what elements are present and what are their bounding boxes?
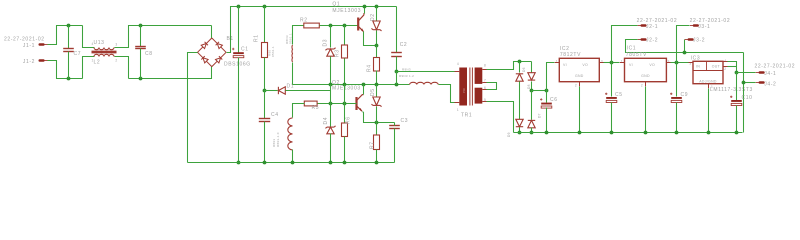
wire IC1 VO to IC3 IN: [671, 62, 689, 64]
wire D6 top stub: [519, 62, 521, 73]
svg-text:C9: C9: [681, 92, 689, 98]
pin OUT IC3: [712, 65, 721, 69]
junction C2 node: [395, 70, 399, 74]
junction C1 top: [237, 5, 241, 9]
label Q1: [332, 2, 340, 8]
junction lower winding ground: [291, 161, 295, 165]
junction J3-2 line: [683, 51, 687, 55]
voltage regulator IC2 7812TV: [559, 58, 599, 81]
connector pin J2-2: [638, 38, 647, 41]
value L6 col2: [276, 132, 280, 147]
svg-text:PRI: PRI: [462, 88, 466, 93]
capacitor C3: [389, 126, 400, 129]
wire midpoint rail: [293, 84, 410, 86]
junction D6 cathode: [518, 60, 522, 64]
svg-text:MJE13003: MJE13003: [332, 85, 361, 91]
svg-text:D9: D9: [507, 132, 511, 137]
wire secondary ground rail: [514, 132, 743, 134]
svg-text:C8: C8: [145, 51, 153, 57]
junction D2 rail: [375, 5, 379, 9]
label U13: [94, 40, 105, 46]
svg-text:1: 1: [711, 85, 713, 89]
pin IN IC3: [696, 65, 700, 69]
resistor R7: [374, 135, 380, 150]
pin GND IC2: [575, 74, 584, 78]
wire D2 top stub: [376, 7, 378, 21]
svg-text:R1: R1: [254, 34, 260, 42]
wire bridge left to ground: [188, 53, 198, 163]
svg-text:MJE13003: MJE13003: [332, 8, 361, 14]
svg-text:GND: GND: [575, 74, 584, 78]
junction C5 ground: [610, 131, 614, 135]
diode D9: [516, 119, 523, 126]
pin 2 IC1: [641, 84, 643, 88]
svg-text:0561.1: 0561.1: [271, 46, 275, 57]
capacitor C7: [63, 49, 74, 52]
pin 3 IC3: [689, 62, 691, 66]
connector pin J4-2: [756, 81, 765, 84]
label IC1 value 7805TV: [626, 52, 647, 58]
wire C9 from VO node: [676, 63, 678, 97]
connector pin J2-1: [638, 24, 647, 27]
zener diode D3: [326, 48, 336, 57]
pin 4 TR1: [457, 62, 459, 66]
pin VI IC2: [563, 63, 567, 67]
svg-text:TR1: TR1: [461, 113, 472, 119]
capacitor C1: [232, 48, 244, 58]
bridge rectifier B1: [196, 36, 228, 68]
svg-text:R6: R6: [346, 116, 352, 124]
value R1 col2: [271, 46, 275, 57]
label TR1: [461, 113, 472, 119]
wire winding to midrail: [292, 63, 294, 85]
svg-text:2: 2: [115, 59, 117, 63]
inductor U13 winding bottom: [94, 54, 114, 56]
inductor L6 feedback winding lower: [288, 118, 293, 150]
label D2: [370, 13, 376, 21]
svg-text:4: 4: [457, 62, 459, 66]
label B1: [227, 36, 234, 42]
svg-text:R7: R7: [369, 141, 375, 149]
label IC2 value 7812TV: [560, 52, 581, 58]
resistor R3: [342, 45, 348, 58]
wire D7 to ground rail: [531, 128, 533, 133]
svg-text:7805TV: 7805TV: [626, 52, 647, 58]
svg-text:22-27-2021-02: 22-27-2021-02: [637, 18, 678, 24]
svg-text:J1-2: J1-2: [23, 59, 35, 65]
svg-text:22-27-2021-02: 22-27-2021-02: [690, 18, 731, 24]
wire J4-1 line: [737, 72, 756, 74]
svg-text:C10: C10: [742, 95, 753, 101]
label C9: [681, 92, 689, 98]
junction midrail R4: [375, 83, 379, 87]
resistor R4: [374, 58, 380, 72]
svg-text:0561.1: 0561.1: [288, 33, 292, 44]
pin 4 U13: [92, 42, 94, 46]
label C8: [145, 51, 153, 57]
wire J3-2 stub: [684, 40, 686, 53]
junction Q1 base D3: [329, 24, 333, 28]
junction C6 ground: [545, 131, 549, 135]
pin 2 U13: [115, 59, 117, 63]
junction C8 top: [139, 24, 143, 28]
transistor Q1 MJE13003: [358, 13, 364, 32]
wire base line to lower winding: [293, 104, 305, 118]
svg-text:VO: VO: [649, 63, 655, 67]
svg-text:R9N3: R9N3: [402, 68, 411, 72]
svg-text:R3: R3: [334, 49, 340, 57]
wire bottom rail to bridge: [129, 67, 212, 79]
junction midrail C2: [395, 83, 399, 87]
pin GND IC1: [641, 74, 650, 78]
label D4: [323, 117, 329, 125]
label C7: [74, 51, 82, 57]
label J3-1: [698, 24, 710, 30]
wire R7 to ground: [376, 150, 378, 163]
junction D7 ground: [530, 131, 534, 135]
pin 4 IC3: [724, 59, 726, 63]
label D9: [507, 132, 511, 137]
capacitor C6: [540, 98, 552, 108]
junction R1 top: [263, 5, 267, 9]
label C10: [742, 95, 753, 101]
svg-text:D2: D2: [370, 13, 376, 21]
wire R4 bottom to midrail: [376, 71, 378, 85]
junction midrail Q2 collector: [362, 83, 366, 87]
wire J1-2 to bottom rail: [48, 61, 83, 79]
text date code J2: [637, 18, 678, 24]
value L5: [399, 74, 414, 78]
pin 1 IC3: [711, 85, 713, 89]
wire C4 to ground: [264, 122, 266, 163]
wire R2 left to winding: [293, 26, 304, 45]
pin 1 IC1: [621, 60, 623, 64]
zener diode D2: [372, 21, 382, 31]
wire Q2 base line: [318, 103, 357, 105]
wire plus node line: [532, 90, 547, 92]
svg-text:J2-1: J2-1: [646, 24, 658, 30]
connector pin J1-2: [39, 59, 48, 62]
U13 core lines: [92, 51, 117, 52]
label J2-2: [646, 38, 658, 44]
wire C7 bottom stub: [68, 52, 70, 79]
pin 7 TR1: [484, 79, 486, 83]
wire plus node to C6: [546, 91, 548, 103]
junction D4 ground: [329, 161, 333, 165]
capacitor C4: [259, 119, 270, 122]
junction C4 ground: [263, 161, 267, 165]
junction R7 ground: [375, 161, 379, 165]
text date code J4: [755, 64, 796, 70]
value L4 col2: [288, 33, 292, 44]
wire bridge top corner: [211, 26, 213, 39]
wire plus node to IC2 VI: [547, 63, 555, 91]
wire return riser right: [743, 53, 745, 133]
text date code J1: [4, 37, 45, 43]
wire L5 to TR1 pin1: [439, 85, 455, 103]
svg-text:VO: VO: [582, 63, 588, 67]
wire R1 to node A: [264, 58, 266, 91]
svg-text:C7: C7: [74, 51, 82, 57]
transistor Q2 MJE13003: [357, 95, 364, 112]
svg-text:C4: C4: [271, 112, 279, 118]
junction C9 ground: [675, 131, 679, 135]
wire L2 pin2 down: [115, 57, 129, 79]
wire IC2 GND to rail: [579, 87, 581, 133]
junction base line D4: [329, 102, 333, 106]
wire D5 top stub: [376, 85, 378, 97]
capacitor C2: [391, 53, 402, 57]
label D3: [322, 39, 328, 47]
wire C7 top stub: [68, 26, 70, 49]
zener diode D4: [326, 126, 336, 134]
label C6: [550, 97, 558, 103]
wire Q2 emitter down: [363, 112, 395, 123]
wire C2 node to midrail: [396, 72, 398, 85]
pin ADJ/GND IC3: [699, 79, 717, 83]
svg-text:J1-1: J1-1: [23, 43, 35, 49]
pin 5 TR1: [484, 98, 486, 102]
wire C1 to ground: [238, 58, 240, 163]
svg-text:U13: U13: [94, 40, 105, 46]
text date code J3: [690, 18, 731, 24]
capacitor C8: [135, 47, 146, 49]
connector pin J3-1: [690, 24, 699, 27]
wire IC3 GND to rail: [708, 89, 710, 133]
wire D5 bottom stub: [376, 107, 378, 123]
pin 8 TR1: [484, 64, 486, 68]
junction IC3 ground: [707, 131, 711, 135]
resistor R5: [304, 101, 317, 106]
label D6: [522, 67, 526, 72]
svg-text:3: 3: [115, 43, 117, 47]
svg-text:ADJ/GND: ADJ/GND: [699, 79, 717, 83]
capacitor C9: [670, 93, 682, 103]
wire IC3 OUT pin4: [728, 62, 737, 73]
wire sec2 bottom to ground rail: [487, 102, 514, 133]
svg-text:LM1117-3.3ST3: LM1117-3.3ST3: [710, 87, 753, 93]
label IC3: [691, 56, 701, 62]
junction IC1 ground: [644, 131, 648, 135]
wire lower winding to ground: [292, 150, 294, 163]
wire C10 to ground: [736, 106, 738, 133]
wire C3 top stub: [394, 123, 396, 126]
junction C7 top: [67, 24, 71, 28]
resistor R6: [342, 123, 348, 137]
label IC2: [560, 46, 570, 52]
svg-text:J3-1: J3-1: [698, 24, 710, 30]
wire C1 from rail: [238, 7, 240, 53]
label J1-1: [23, 43, 35, 49]
wire node A to D1: [265, 90, 278, 92]
svg-text:L2: L2: [94, 60, 101, 66]
wire C10 from OUT node: [736, 73, 738, 101]
wire D9 to ground rail: [519, 128, 521, 133]
IC2 pin stubs: [555, 63, 604, 87]
junction Q1 collector rail: [363, 5, 367, 9]
wire R4 top stub: [376, 46, 378, 58]
label D7: [538, 113, 542, 118]
capacitor C10: [730, 96, 742, 106]
wire C3 to ground corner: [394, 129, 396, 163]
svg-text:C1: C1: [241, 47, 249, 53]
label D8: [527, 84, 531, 89]
svg-text:2: 2: [575, 84, 577, 88]
wire IC3 OUT pin2: [728, 66, 737, 68]
junction C1 ground: [237, 161, 241, 165]
pin VO IC2: [582, 63, 588, 67]
wire D1 to Q2 base column: [286, 90, 331, 92]
wire rail into L2 pin4: [83, 26, 95, 48]
wire D2 bottom stub: [376, 31, 378, 46]
pin 1 TR1: [457, 108, 459, 112]
pin 2 IC2: [575, 84, 577, 88]
label TR1 PRI: [462, 88, 466, 93]
wire center tap U link: [487, 83, 497, 90]
junction base line R6: [343, 102, 347, 106]
wire Q1 collector to rail: [364, 7, 366, 14]
inductor L5 series: [410, 82, 439, 84]
junction OUT node IC3: [735, 71, 739, 75]
label D5: [370, 88, 376, 96]
label J3-2: [693, 38, 705, 44]
wire rail corner down to C2: [396, 7, 398, 53]
voltage regulator IC3 LM1117: [693, 61, 723, 83]
wire C8 bottom stub: [140, 49, 142, 79]
resistor R1: [262, 43, 268, 58]
wire J2-2 riser: [626, 40, 744, 53]
svg-text:R5: R5: [312, 105, 320, 111]
wire L2 pin3 to rail: [115, 26, 212, 48]
wire node A to C4: [264, 91, 266, 119]
label R2: [300, 18, 308, 24]
label J2-1: [646, 24, 658, 30]
svg-text:D8: D8: [527, 84, 531, 89]
svg-text:DBS106G: DBS106G: [224, 62, 251, 68]
junction C8 bottom: [139, 77, 143, 81]
svg-text:8: 8: [484, 64, 486, 68]
wire C8 top stub: [140, 26, 142, 47]
svg-text:D3: D3: [322, 39, 328, 47]
junction emitter D2 R4: [375, 44, 379, 48]
diode D1: [278, 87, 285, 94]
wire IC2 VO to IC1 VI: [604, 62, 620, 64]
capacitor C5: [605, 93, 617, 103]
inductor L4 feedback winding upper: [291, 45, 293, 62]
inductor U13 winding top: [94, 48, 114, 50]
label DBS106G value: [224, 62, 251, 68]
connector pin J1-1: [39, 43, 48, 46]
wire R3 top stub: [344, 26, 346, 45]
pin VI IC1: [629, 63, 633, 67]
zener diode D5: [372, 97, 382, 107]
connector pin J4-1: [756, 71, 765, 74]
label R5: [312, 105, 320, 111]
voltage regulator IC1 7805TV: [625, 58, 667, 81]
IC3 pin stubs: [689, 62, 728, 89]
svg-text:GND: GND: [641, 74, 650, 78]
pin 1 IC2: [556, 60, 558, 64]
svg-text:2: 2: [724, 67, 726, 71]
label L5 name: [402, 68, 411, 72]
junction emitter line D5: [375, 121, 379, 125]
wire R1 from rail: [264, 7, 266, 43]
junction midrail R3: [343, 83, 347, 87]
wire R6 to ground: [344, 137, 346, 163]
wire D3 top stub: [330, 26, 332, 48]
svg-text:Q1: Q1: [332, 2, 340, 8]
pin 1 U13: [92, 59, 94, 63]
wire sec1 top to diodes: [487, 62, 532, 70]
diode D7: [528, 120, 535, 127]
junction C7 bottom: [67, 77, 71, 81]
svg-text:IN: IN: [696, 65, 700, 69]
junction Q1 base R3: [343, 24, 347, 28]
pin 3 IC2: [601, 60, 603, 64]
pin 3 U13: [115, 43, 117, 47]
svg-text:IC1: IC1: [627, 46, 637, 52]
wire C5 from VO node: [611, 63, 613, 97]
wire C5 to ground: [611, 103, 613, 133]
connector pin J3-2: [685, 38, 694, 41]
label R3: [334, 49, 340, 57]
svg-text:J4-2: J4-2: [764, 81, 776, 87]
pin 3 IC1: [668, 60, 670, 64]
junction J4-2 node: [742, 81, 746, 85]
resistor R2: [304, 23, 320, 28]
label R7: [369, 141, 375, 149]
junction midrail D3: [329, 83, 333, 87]
value L6 col1: [272, 139, 276, 147]
wire C6 to ground: [546, 108, 548, 133]
svg-text:22-27-2021-02: 22-27-2021-02: [755, 64, 796, 70]
svg-text:J3-2: J3-2: [693, 38, 705, 44]
svg-text:OUT: OUT: [712, 65, 721, 69]
wire C9 to ground: [676, 103, 678, 133]
label R4: [367, 64, 373, 72]
label L2: [94, 60, 101, 66]
label Q1 value MJE13003: [332, 8, 361, 14]
wire J2-1 riser: [612, 26, 638, 63]
wire D3 column to base line: [330, 85, 332, 127]
wire Q2 collector to midrail: [363, 85, 365, 95]
svg-text:2: 2: [641, 84, 643, 88]
wire R7 top stub: [376, 123, 378, 135]
svg-text:C3: C3: [401, 118, 409, 124]
label C1: [241, 47, 249, 53]
label IC1: [627, 46, 637, 52]
svg-text:D6: D6: [522, 67, 526, 72]
svg-text:R4: R4: [367, 64, 373, 72]
label R6: [346, 116, 352, 124]
wire C2 to node: [396, 57, 398, 72]
svg-text:D5: D5: [370, 88, 376, 96]
pin 6 TR1: [484, 86, 486, 90]
svg-text:22-27-2021-02: 22-27-2021-02: [4, 37, 45, 43]
diode D6: [516, 74, 523, 81]
junction node A: [263, 89, 267, 93]
junction D8 plus node: [530, 89, 534, 93]
junction VO node IC2: [610, 61, 614, 65]
label C5: [615, 92, 623, 98]
label J4-2: [764, 81, 776, 87]
svg-text:7: 7: [484, 79, 486, 83]
svg-text:C6: C6: [550, 97, 558, 103]
wire R3 bottom to midrail: [344, 59, 346, 85]
pin VO IC1: [649, 63, 655, 67]
svg-text:R893-1.0: R893-1.0: [276, 132, 280, 147]
wire Q1 base line: [320, 25, 358, 27]
